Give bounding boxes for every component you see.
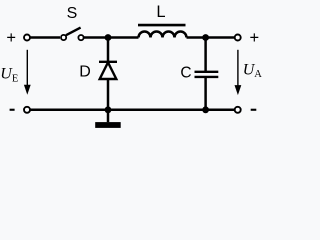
node B bottom junction — [202, 106, 209, 113]
wire top rail: switch to node A — [84, 36, 139, 39]
ground — [95, 110, 121, 128]
node A bottom junction — [105, 106, 112, 113]
wire node B down to capacitor — [204, 38, 207, 72]
capacitor C — [195, 72, 219, 77]
svg-text:+: + — [6, 29, 16, 47]
wire node A down to diode cathode — [107, 38, 110, 62]
terminal right + — [235, 35, 241, 41]
wire top rail: + terminal to switch — [30, 36, 60, 39]
node B junction — [202, 34, 209, 41]
voltage arrow U_E — [24, 50, 31, 95]
wire top rail: inductor right end to node B — [187, 36, 235, 39]
svg-text:S: S — [67, 5, 78, 22]
label - left — [10, 109, 15, 111]
svg-text:C: C — [180, 64, 191, 81]
svg-text:+: + — [249, 29, 259, 47]
wire diode anode to bottom rail — [107, 79, 110, 110]
diode D — [99, 62, 117, 79]
voltage arrow U_A — [235, 50, 242, 95]
inductor L core bar — [138, 24, 186, 27]
wire capacitor to bottom rail — [204, 77, 207, 110]
terminal right - — [235, 107, 241, 113]
switch S — [61, 28, 84, 41]
terminal left - — [24, 107, 30, 113]
svg-text:L: L — [156, 3, 165, 21]
wire bottom rail — [30, 109, 234, 112]
svg-text:D: D — [79, 63, 91, 80]
label - right — [251, 109, 257, 111]
inductor L coil — [139, 32, 187, 38]
terminal left + — [24, 35, 30, 41]
node A junction — [105, 34, 112, 41]
